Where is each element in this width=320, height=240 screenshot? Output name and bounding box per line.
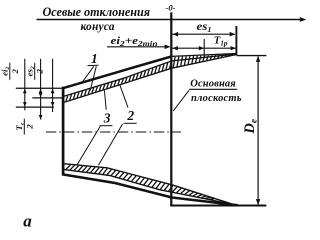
svg-text:1: 1 [91,51,98,66]
svg-text:а: а [23,212,32,229]
cone bottom generator (nominal, thick) [63,174,238,205]
rotated label Te/2 [14,119,34,135]
top tolerance band boundary lines [64,54,237,97]
svg-text:-0-: -0- [166,3,176,13]
basic plane vertical line [170,12,172,205]
svg-text:Основная: Основная [190,79,236,90]
svg-text:конуса: конуса [81,21,115,33]
svg-text:Осевые отклонения: Осевые отклонения [43,5,151,19]
svg-text:2: 2 [10,69,20,75]
rotated label es2/2 [25,63,45,80]
rotated label ei2/2 [0,63,20,80]
top band hatching [66,54,231,101]
svg-text:2: 2 [24,124,34,130]
left grid: extension lines H1 H2 H3 [16,87,65,89]
svg-text:2: 2 [35,69,45,75]
axis centerline (dash-dot) [46,131,181,133]
left grid: dimension verticals V1 V2 V3 with arrows [24,59,26,111]
cone small end vertical (thick) [62,87,65,176]
extension line large end [235,26,237,56]
bottom band hatching [66,165,214,199]
datum line with arrow [37,19,304,21]
cone top generator (nominal, thick) [63,57,172,89]
bottom tolerance band boundary lines [64,164,232,204]
dimension De [237,55,267,57]
baseline at large end [170,205,266,207]
svg-text:3: 3 [103,111,111,126]
svg-text:плоскость: плоскость [191,93,242,104]
svg-text:2: 2 [126,108,134,123]
